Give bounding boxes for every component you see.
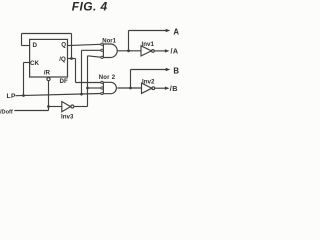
wire B vertical [130, 70, 132, 89]
wire to Nor1 middle input [82, 49, 101, 51]
inverter Inv2 [142, 83, 152, 93]
wire to Nor2 middle input [88, 87, 101, 89]
wire A horizontal [129, 30, 167, 32]
node junction A branch [127, 49, 130, 52]
wire feedback right vertical from /Q [71, 34, 73, 59]
wire to Inv3 input [49, 106, 62, 108]
svg-text:/A: /A [171, 47, 179, 56]
svg-text:Nor 2: Nor 2 [99, 75, 116, 81]
svg-text:A: A [173, 27, 179, 36]
svg-text:/Doff: /Doff [0, 110, 13, 116]
svg-text:B: B [173, 66, 179, 75]
svg-text:Inv2: Inv2 [142, 78, 155, 85]
node junction on /Q [70, 57, 73, 60]
wire Q output to Nor1 top input [68, 44, 101, 45]
wire LP to Nor2 bottom input [16, 94, 101, 96]
wire Inv3 vertical up [87, 56, 89, 107]
svg-text:D: D [33, 42, 38, 49]
wire CK input [24, 62, 30, 64]
svg-text:CK: CK [30, 60, 39, 67]
svg-text:/Q: /Q [59, 56, 66, 63]
arrow /A [165, 49, 170, 52]
wire /Doff input [14, 110, 48, 112]
svg-text:LP: LP [7, 93, 17, 100]
node junction B branch [129, 87, 132, 90]
arrow A [166, 29, 171, 32]
inverter Inv1 [141, 46, 151, 56]
wire Inv1 output [154, 50, 165, 52]
node junction /Doff [47, 105, 50, 108]
wire Nor1 output [117, 50, 141, 52]
svg-text:Inv1: Inv1 [142, 41, 155, 48]
arrow B [166, 68, 171, 71]
svg-text:DF: DF [60, 78, 68, 85]
wire Inv3 output [74, 106, 88, 108]
node junction LP branch up [80, 93, 83, 96]
inverter Inv3 [62, 102, 71, 112]
wire /Q down to Nor2 [75, 59, 77, 83]
wire /R vertical [48, 81, 50, 111]
svg-text:Q: Q [61, 41, 66, 48]
wire B horizontal [131, 69, 167, 71]
wire feedback top horizontal [22, 33, 72, 35]
/R bubble [47, 78, 50, 81]
arrow /B [165, 87, 170, 90]
wire /Q output [68, 58, 76, 60]
wire to Nor2 top input [76, 82, 101, 84]
node junction LP/CK [22, 94, 25, 97]
gate Nor2 [101, 81, 103, 83]
svg-text:/R: /R [44, 69, 51, 76]
svg-text:Nor1: Nor1 [102, 39, 116, 45]
wire feedback left vertical [21, 34, 23, 46]
wire D input [22, 45, 30, 47]
wire A vertical [128, 31, 130, 51]
wire to Nor1 bottom input [88, 56, 101, 57]
wire CK vertical to LP [23, 63, 25, 96]
D flip-flop U1 box [30, 39, 68, 77]
wire Nor2 output [117, 87, 141, 89]
svg-text:/B: /B [170, 84, 178, 93]
gate Nor1 [101, 43, 103, 45]
node junction Doff branch [86, 87, 89, 90]
svg-text:Inv3: Inv3 [61, 114, 74, 120]
svg-text:FIG. 4: FIG. 4 [72, 0, 108, 14]
wire Inv2 output [155, 87, 166, 89]
wire LP branch vertical up to Nor1 [81, 50, 83, 94]
